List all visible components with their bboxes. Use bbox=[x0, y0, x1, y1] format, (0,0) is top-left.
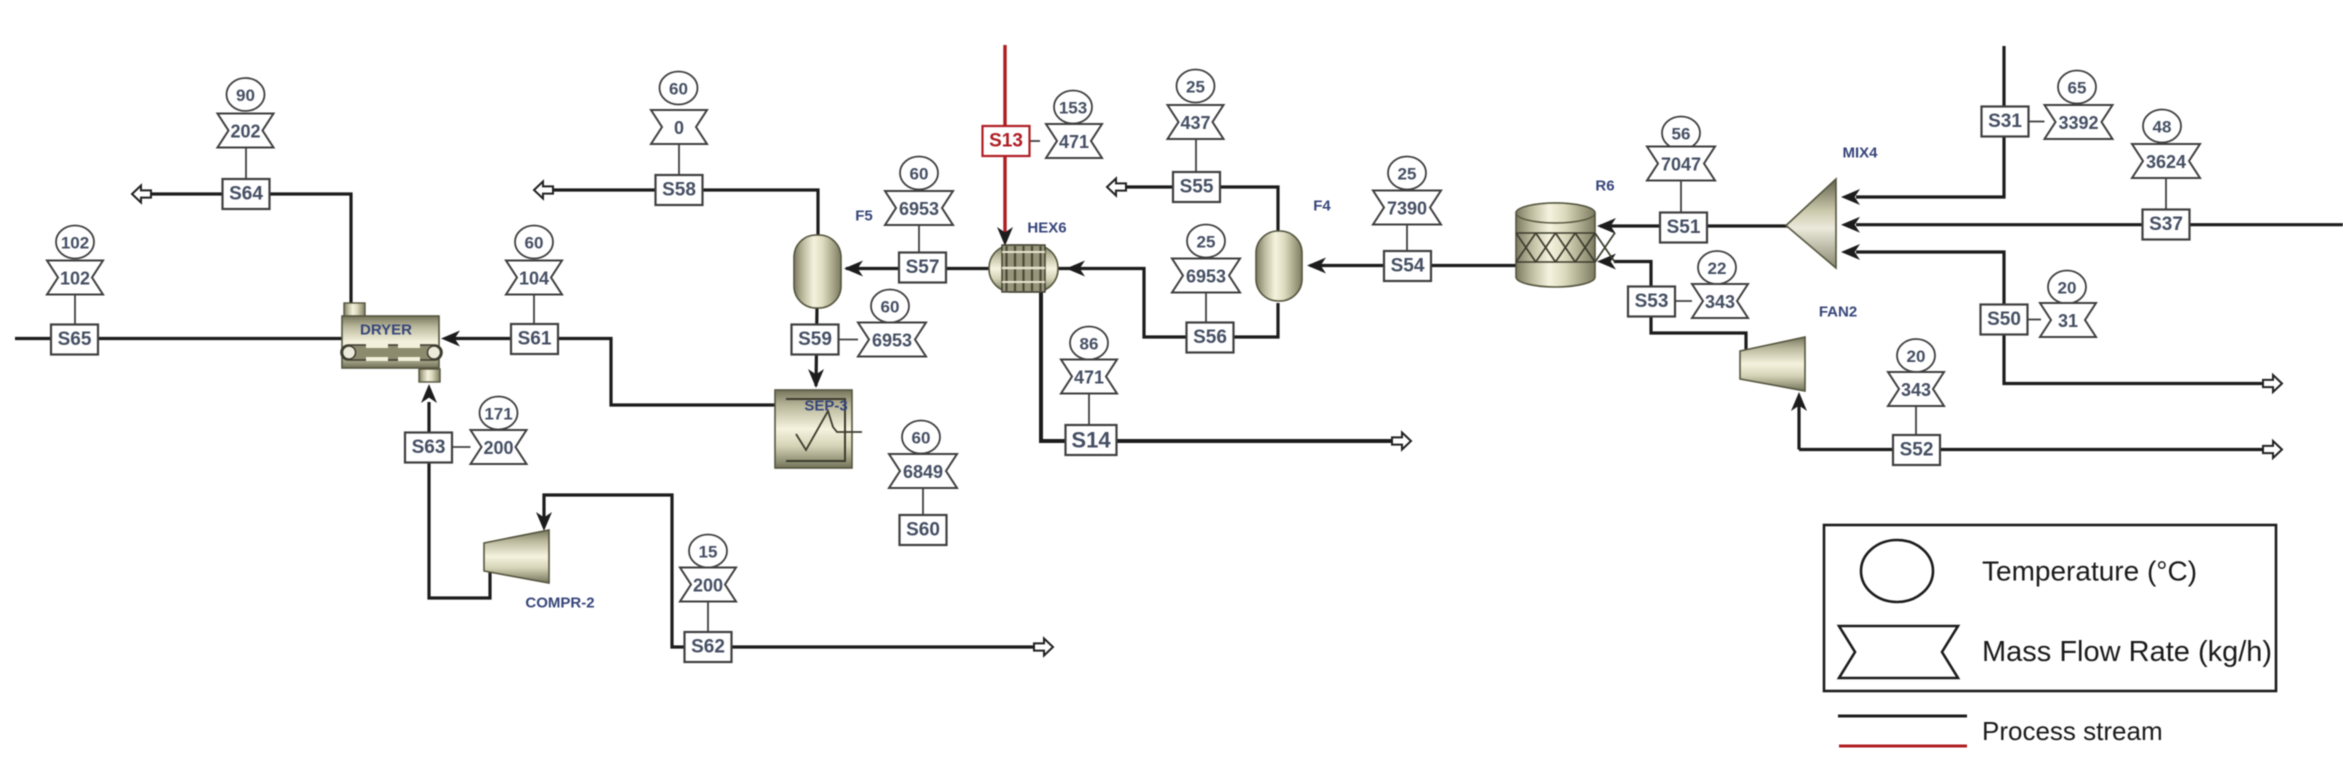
node S56 bbox=[1187, 323, 1234, 353]
svg-text:56: 56 bbox=[1672, 125, 1691, 144]
svg-text:3624: 3624 bbox=[2146, 152, 2186, 172]
svg-text:3392: 3392 bbox=[2058, 113, 2098, 133]
wire S65 bbox=[15, 337, 342, 340]
svg-text:60: 60 bbox=[881, 298, 900, 317]
svg-text:S37: S37 bbox=[2149, 214, 2183, 235]
mass flow indicator 202 bbox=[218, 114, 274, 148]
svg-text:S52: S52 bbox=[1900, 440, 1934, 461]
connector bbox=[245, 148, 247, 180]
svg-text:20: 20 bbox=[2058, 279, 2077, 298]
svg-text:S63: S63 bbox=[412, 437, 446, 458]
svg-text:S31: S31 bbox=[1988, 111, 2022, 132]
connector bbox=[1680, 181, 1682, 213]
svg-text:86: 86 bbox=[1080, 335, 1099, 354]
svg-text:S13: S13 bbox=[989, 131, 1023, 152]
temperature indicator 90 bbox=[227, 78, 265, 111]
arrow into HEX6 top bbox=[997, 227, 1013, 246]
connector bbox=[1205, 293, 1207, 323]
svg-text:S50: S50 bbox=[1987, 309, 2021, 330]
connector bbox=[838, 339, 858, 341]
svg-text:7390: 7390 bbox=[1387, 199, 1427, 219]
svg-text:FAN2: FAN2 bbox=[1819, 304, 1857, 321]
node S31 bbox=[1982, 107, 2029, 137]
node S54 bbox=[1384, 251, 1431, 281]
svg-text:S53: S53 bbox=[1635, 291, 1669, 312]
connector bbox=[74, 295, 76, 325]
wire S53 bbox=[1614, 262, 1651, 289]
svg-text:S60: S60 bbox=[906, 520, 940, 541]
wire S13 (red) bbox=[1003, 45, 1006, 238]
connector bbox=[1915, 406, 1917, 434]
svg-text:S58: S58 bbox=[662, 180, 696, 201]
temperature indicator 60 bbox=[902, 421, 940, 454]
connector bbox=[1675, 300, 1692, 302]
export arrow S52 bbox=[2263, 441, 2282, 458]
temperature indicator 20 bbox=[1897, 339, 1935, 372]
mass flow indicator 0 bbox=[651, 110, 707, 144]
mass flow indicator 6953 bbox=[1172, 259, 1240, 293]
svg-text:HEX6: HEX6 bbox=[1027, 220, 1066, 237]
svg-text:48: 48 bbox=[2153, 118, 2172, 137]
temperature indicator 25 bbox=[1177, 70, 1215, 103]
wire S59 bbox=[816, 307, 817, 386]
temperature indicator 48 bbox=[2143, 110, 2181, 143]
arrow into MIX4 bottom bbox=[1841, 244, 1860, 260]
temperature indicator 86 bbox=[1070, 327, 1108, 360]
connector bbox=[1406, 225, 1408, 252]
svg-text:65: 65 bbox=[2068, 79, 2087, 98]
connector bbox=[707, 602, 709, 633]
wire S63 bbox=[429, 402, 490, 598]
svg-text:25: 25 bbox=[1186, 78, 1205, 97]
mass flow indicator 6953 bbox=[885, 191, 953, 225]
mass flow indicator 200 bbox=[680, 568, 736, 602]
mass flow indicator 7390 bbox=[1373, 191, 1441, 225]
svg-text:F5: F5 bbox=[855, 208, 873, 225]
connector bbox=[2165, 178, 2167, 209]
arrow into MIX4 top bbox=[1841, 189, 1860, 205]
connector bbox=[533, 295, 535, 325]
connector bbox=[678, 144, 680, 175]
svg-text:S62: S62 bbox=[691, 637, 725, 658]
wire S56 bbox=[1056, 269, 1278, 338]
mass flow indicator 6849 bbox=[889, 454, 957, 488]
svg-text:25: 25 bbox=[1398, 165, 1417, 184]
connector bbox=[2029, 121, 2045, 123]
legend black stream line bbox=[1838, 715, 1967, 718]
connector bbox=[1030, 140, 1040, 142]
svg-text:20: 20 bbox=[1907, 347, 1926, 366]
arrow into F4 bbox=[1307, 258, 1326, 274]
export arrow S50 bbox=[2263, 375, 2282, 392]
svg-text:F4: F4 bbox=[1313, 198, 1331, 215]
wire S51 bbox=[1600, 224, 1788, 227]
arrow into DRYER bbox=[441, 331, 460, 347]
export arrow S58 bbox=[534, 182, 553, 199]
svg-text:25: 25 bbox=[1197, 233, 1216, 252]
legend temperature symbol bbox=[1861, 540, 1933, 602]
node S55 bbox=[1173, 172, 1220, 202]
svg-text:6953: 6953 bbox=[1186, 267, 1226, 287]
svg-text:31: 31 bbox=[2058, 311, 2078, 331]
wire S14 bbox=[1041, 290, 1394, 441]
mass flow indicator 104 bbox=[506, 261, 562, 295]
svg-text:7047: 7047 bbox=[1661, 155, 1701, 175]
temperature indicator 15 bbox=[689, 535, 727, 568]
svg-text:471: 471 bbox=[1074, 368, 1104, 388]
temperature indicator 60 bbox=[515, 226, 553, 259]
connector bbox=[918, 225, 920, 253]
node S57 bbox=[899, 253, 946, 283]
svg-text:343: 343 bbox=[1705, 292, 1735, 312]
mass flow indicator 437 bbox=[1168, 105, 1224, 139]
temperature indicator 153 bbox=[1054, 91, 1092, 124]
node S61 bbox=[511, 324, 558, 354]
heat-exchanger HEX6 bbox=[989, 245, 1058, 292]
node S37 bbox=[2143, 210, 2190, 240]
wire S54 bbox=[1310, 264, 1516, 267]
export arrow S64 bbox=[132, 186, 151, 203]
legend mass flow symbol bbox=[1839, 626, 1958, 678]
export arrow S62 bbox=[1034, 639, 1053, 656]
node S62 bbox=[685, 632, 732, 662]
legend box bbox=[1824, 525, 2276, 691]
svg-text:153: 153 bbox=[1059, 99, 1087, 118]
svg-text:MIX4: MIX4 bbox=[1842, 145, 1878, 162]
legend red stream line bbox=[1839, 745, 1967, 748]
svg-text:6953: 6953 bbox=[899, 199, 939, 219]
arrow into COMPR-2 bbox=[536, 512, 552, 531]
node S50 bbox=[1981, 305, 2028, 335]
mass flow indicator 102 bbox=[47, 261, 103, 295]
wire S31 bbox=[1856, 46, 2004, 197]
temperature indicator 60 bbox=[660, 72, 698, 105]
svg-text:200: 200 bbox=[693, 576, 723, 596]
svg-text:60: 60 bbox=[912, 429, 931, 448]
node S65 bbox=[51, 325, 98, 355]
node S53 bbox=[1628, 287, 1675, 317]
wire S57 bbox=[846, 267, 989, 270]
node S60 bbox=[900, 515, 947, 545]
export arrow S55 bbox=[1107, 179, 1126, 196]
arrow into SEP-3 bbox=[808, 369, 824, 388]
svg-text:S59: S59 bbox=[798, 329, 832, 350]
wire S50 bbox=[1856, 252, 2263, 384]
arrow into FAN2 bbox=[1791, 392, 1807, 411]
mass flow indicator 6953 bbox=[858, 323, 926, 357]
svg-text:COMPR-2: COMPR-2 bbox=[525, 595, 594, 612]
svg-text:6953: 6953 bbox=[872, 331, 912, 351]
arrow into DRYER bottom bbox=[421, 384, 437, 403]
connector bbox=[1195, 139, 1197, 172]
mass flow indicator 31 bbox=[2040, 303, 2096, 337]
wire S53 to FAN2 bbox=[1651, 315, 1746, 352]
svg-text:S55: S55 bbox=[1180, 177, 1214, 198]
reactor R6 bbox=[1516, 203, 1615, 287]
connector bbox=[922, 488, 924, 515]
svg-text:S14: S14 bbox=[1071, 428, 1111, 453]
svg-text:171: 171 bbox=[484, 405, 512, 424]
svg-text:15: 15 bbox=[699, 543, 718, 562]
vessel F5 bbox=[794, 235, 841, 308]
svg-text:S64: S64 bbox=[229, 184, 263, 205]
svg-text:200: 200 bbox=[483, 438, 513, 458]
svg-text:S57: S57 bbox=[906, 257, 940, 278]
node S13 (red) bbox=[983, 126, 1030, 156]
wire S37 bbox=[1856, 223, 2343, 226]
mass flow indicator 343 bbox=[1692, 284, 1748, 318]
svg-text:S56: S56 bbox=[1193, 327, 1227, 348]
svg-text:S61: S61 bbox=[518, 329, 552, 350]
fan FAN2 bbox=[1740, 337, 1805, 391]
export arrow S14 bbox=[1392, 433, 1411, 450]
wire S55 bbox=[1125, 187, 1278, 232]
temperature indicator 65 bbox=[2058, 71, 2096, 104]
temperature indicator 60 bbox=[900, 157, 938, 190]
svg-text:Process stream: Process stream bbox=[1982, 716, 2163, 746]
connector bbox=[1088, 394, 1090, 425]
svg-text:102: 102 bbox=[60, 269, 90, 289]
node S52 bbox=[1893, 435, 1940, 465]
temperature indicator 25 bbox=[1388, 157, 1426, 190]
temperature indicator 102 bbox=[56, 226, 94, 259]
mass flow indicator 3624 bbox=[2132, 144, 2200, 178]
temperature indicator 56 bbox=[1662, 117, 1700, 150]
temperature indicator 60 bbox=[871, 290, 909, 323]
svg-text:S65: S65 bbox=[58, 329, 92, 350]
vessel F4 bbox=[1256, 231, 1302, 301]
node S63 bbox=[405, 433, 452, 463]
connector bbox=[2028, 319, 2041, 321]
dryer DRYER bbox=[341, 303, 442, 382]
svg-text:0: 0 bbox=[674, 118, 684, 138]
separator SEP-3 bbox=[775, 390, 862, 468]
svg-text:343: 343 bbox=[1901, 380, 1931, 400]
arrow into R6 lower bbox=[1597, 254, 1616, 270]
compressor COMPR-2 bbox=[484, 530, 549, 583]
mass flow indicator 7047 bbox=[1647, 147, 1715, 181]
wire S52 bbox=[1799, 448, 2263, 451]
connector bbox=[452, 446, 471, 448]
wire S64 bbox=[150, 194, 351, 303]
wire FAN2 inlet bbox=[1797, 399, 1800, 450]
wire S62 bbox=[544, 495, 1034, 647]
arrow into MIX4 mid bbox=[1841, 217, 1860, 233]
svg-text:22: 22 bbox=[1708, 259, 1727, 278]
svg-text:60: 60 bbox=[669, 80, 688, 99]
arrow into HEX6 right bbox=[1066, 261, 1085, 277]
svg-text:102: 102 bbox=[61, 234, 89, 253]
mass flow indicator 471 bbox=[1061, 360, 1117, 394]
node S58 bbox=[656, 175, 703, 205]
svg-text:60: 60 bbox=[525, 234, 544, 253]
mass flow indicator 200 bbox=[471, 430, 527, 464]
node S59 bbox=[792, 325, 839, 355]
svg-text:Temperature (°C): Temperature (°C) bbox=[1982, 556, 2197, 587]
mass flow indicator 343 bbox=[1888, 372, 1944, 406]
mass flow indicator 3392 bbox=[2045, 105, 2113, 139]
arrow into F5 bbox=[844, 261, 863, 277]
wire S58 bbox=[552, 190, 818, 236]
node S14 bbox=[1066, 425, 1117, 455]
svg-text:R6: R6 bbox=[1595, 178, 1614, 195]
svg-text:SEP-3: SEP-3 bbox=[804, 398, 847, 415]
mass flow indicator 471 bbox=[1046, 124, 1102, 158]
svg-text:471: 471 bbox=[1059, 132, 1089, 152]
arrow into R6 upper bbox=[1597, 218, 1616, 234]
node S51 bbox=[1660, 213, 1707, 243]
temperature indicator 171 bbox=[480, 397, 518, 430]
mixer MIX4 bbox=[1786, 179, 1836, 268]
temperature indicator 22 bbox=[1698, 251, 1736, 284]
svg-text:202: 202 bbox=[230, 122, 260, 142]
svg-text:S54: S54 bbox=[1391, 256, 1425, 277]
svg-text:S51: S51 bbox=[1667, 217, 1701, 238]
svg-text:437: 437 bbox=[1180, 113, 1210, 133]
node S64 bbox=[223, 179, 270, 209]
wire S61 bbox=[452, 339, 776, 406]
svg-text:60: 60 bbox=[910, 165, 929, 184]
svg-text:DRYER: DRYER bbox=[360, 322, 412, 339]
svg-text:Mass Flow Rate (kg/h): Mass Flow Rate (kg/h) bbox=[1982, 636, 2272, 668]
svg-text:90: 90 bbox=[236, 86, 255, 105]
temperature indicator 25 bbox=[1187, 225, 1225, 258]
svg-text:6849: 6849 bbox=[903, 462, 943, 482]
svg-text:104: 104 bbox=[519, 269, 549, 289]
temperature indicator 20 bbox=[2048, 271, 2086, 304]
